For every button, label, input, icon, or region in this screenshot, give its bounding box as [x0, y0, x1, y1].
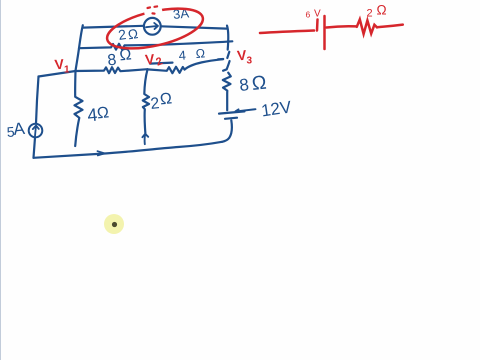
- svg-text:Ω: Ω: [251, 72, 268, 95]
- svg-text:1: 1: [64, 65, 70, 76]
- svg-text:Ω: Ω: [195, 46, 205, 61]
- svg-text:Ω: Ω: [377, 3, 387, 18]
- wire battery to bottom: [222, 120, 232, 142]
- wire right top corner vertical: [227, 26, 228, 50]
- wire stub below B corner: [227, 52, 229, 58]
- svg-text:Ω: Ω: [159, 90, 173, 108]
- wire stub above V3: [223, 61, 230, 71]
- wire left outer bottom (source to bottom corner): [34, 138, 36, 158]
- wire top branch A right: [161, 26, 227, 28]
- svg-text:2: 2: [367, 8, 373, 20]
- battery label dash: [236, 109, 256, 111]
- gap in ellipse stroke (whiteout): [145, 10, 163, 14]
- wire bottom: [34, 142, 223, 158]
- wire C right end dash: [218, 58, 223, 60]
- resistor 8ohm vertical branch (V3): [223, 73, 231, 111]
- resistor 4ohm horizontal (V2-V3) with leads: [148, 59, 224, 73]
- current source 3A circle: [144, 18, 161, 35]
- resistor 4ohm vertical branch with leads: [75, 71, 83, 146]
- red dots above ellipse: [148, 6, 158, 13]
- wire upper-left vertical (V1 up to top branches): [76, 25, 83, 71]
- svg-text:8: 8: [107, 52, 118, 70]
- arrowhead on bottom wire: [98, 151, 105, 155]
- svg-text:Ω: Ω: [127, 26, 139, 42]
- red wire right: [377, 25, 403, 28]
- wire node V1 to top-left corner: [39, 71, 76, 77]
- red wire middle: [327, 26, 357, 27]
- svg-text:12V: 12V: [260, 97, 293, 120]
- resistor 8ohm horizontal (V1-V2) with leads: [76, 67, 148, 73]
- svg-text:8: 8: [238, 75, 249, 95]
- current source 3A arrow: [146, 23, 158, 29]
- battery 12V short plate: [225, 118, 237, 119]
- wire top branch A left: [83, 26, 144, 28]
- resistor 2ohm top branch B with leads: [79, 41, 232, 49]
- svg-text:A: A: [12, 119, 26, 139]
- svg-text:3: 3: [247, 56, 253, 67]
- red annotations: [103, 1, 402, 56]
- svg-text:V: V: [314, 9, 321, 20]
- red battery 6V long plate: [323, 16, 326, 49]
- left edge artifact: [0, 0, 2, 360]
- red resistor 2ohm zigzag: [357, 19, 377, 34]
- blue labels: [6, 5, 293, 140]
- svg-text:Ω: Ω: [96, 104, 110, 122]
- red wire left (6V branch): [260, 31, 314, 34]
- svg-text:2: 2: [117, 26, 127, 43]
- wire left outer top (corner to 5A source): [36, 77, 39, 124]
- svg-text:4: 4: [178, 48, 186, 63]
- cursor highlight dot: [104, 214, 124, 234]
- arrow at bottom of 2ohm branch: [142, 134, 148, 144]
- current source I1 arrow: [33, 126, 39, 137]
- svg-text:6: 6: [306, 10, 311, 20]
- red ellipse around 3A source: [103, 1, 206, 56]
- overdrawn wire stroke near V2: [150, 63, 173, 64]
- battery 12V long plate: [219, 111, 245, 113]
- resistor 2ohm vertical branch with leads: [143, 69, 149, 133]
- red battery 6V short plate: [316, 20, 319, 31]
- svg-text:2: 2: [150, 95, 161, 113]
- current source I1 5A circle: [29, 124, 43, 138]
